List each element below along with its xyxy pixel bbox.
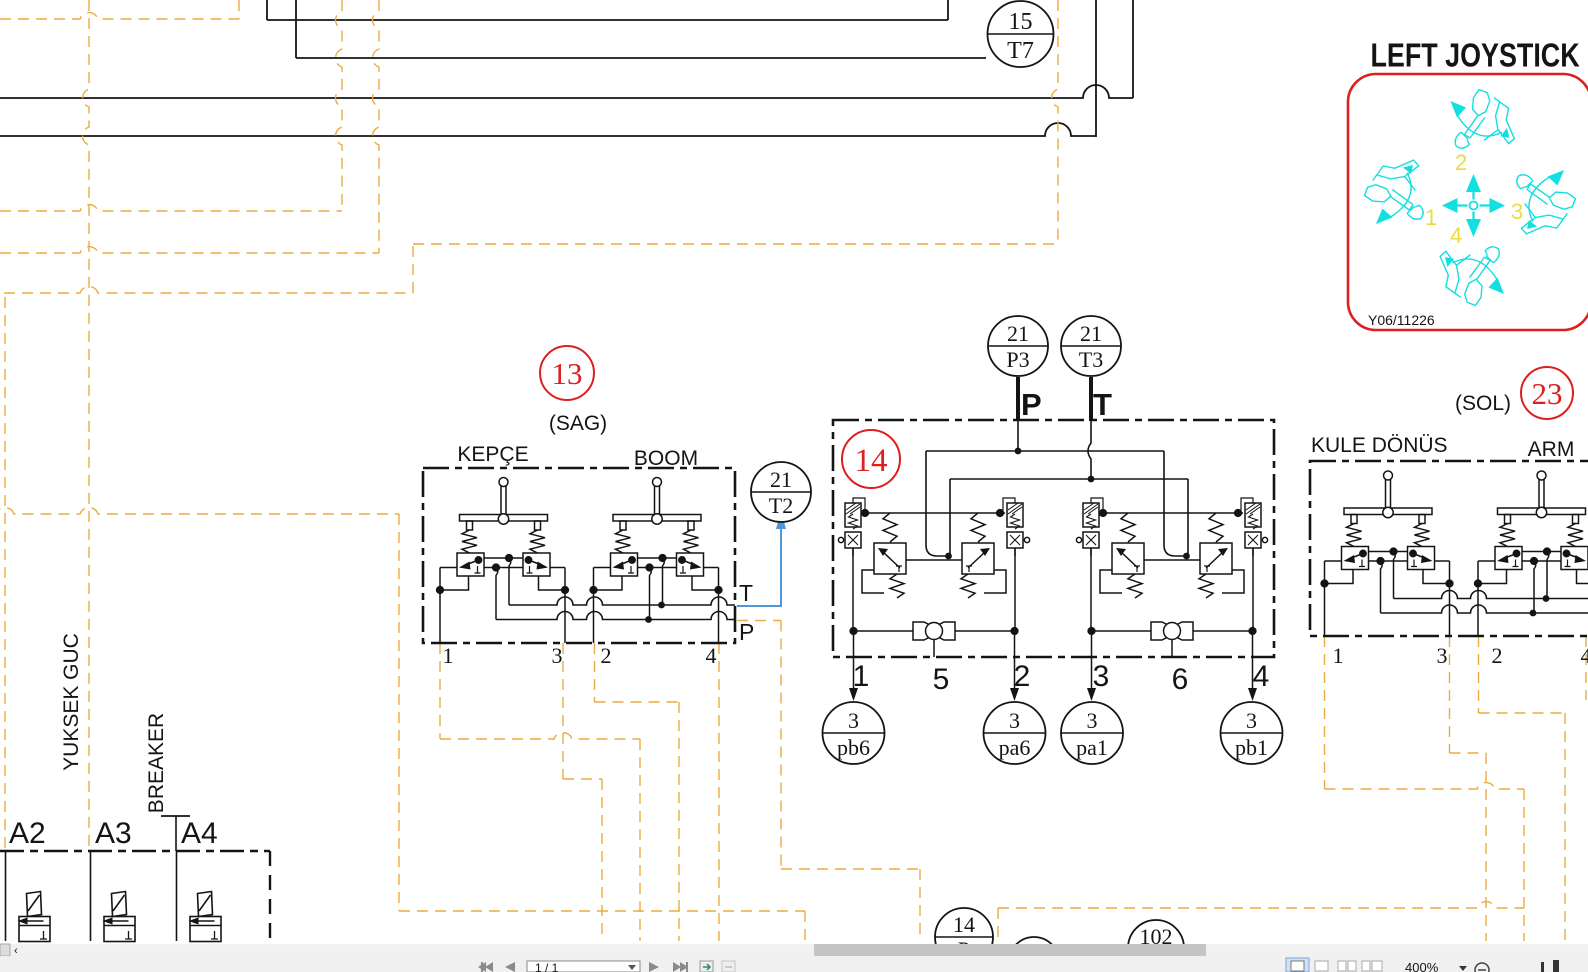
svg-text:T3: T3 — [1079, 347, 1103, 372]
wire: orange pilot line vertical x=379 to horizontal y=253 — [0, 0, 379, 253]
wire: T drop left group — [945, 479, 952, 559]
svg-text:BOOM: BOOM — [634, 447, 698, 470]
LEFT JOYSTICK red border — [1348, 74, 1588, 330]
valve block 13 border — [423, 468, 735, 643]
wire: orange line from port 4 of block 13 — [718, 643, 720, 941]
UI import icon 1 — [700, 961, 713, 972]
svg-text:1: 1 — [1425, 205, 1437, 230]
svg-text:13: 13 — [552, 356, 583, 391]
svg-text:3: 3 — [552, 643, 563, 668]
LEFT JOYSTICK panel title — [1371, 38, 1580, 74]
UI scrollbar track — [0, 944, 1588, 956]
svg-text:A3: A3 — [95, 817, 132, 850]
joystick icon right — [1517, 170, 1576, 234]
joystick icon left — [1364, 160, 1423, 224]
wire: orange line from port 4 of block 23 — [1585, 636, 1587, 700]
valve block 14 border — [833, 420, 1274, 657]
UI page nav last button — [673, 962, 688, 972]
wire: dash-dot bus to A valves — [0, 851, 270, 941]
joystick center cross arrows — [1442, 174, 1505, 237]
wire: orange pilot long horizontal y=244 — [413, 243, 1058, 245]
svg-text:T7: T7 — [1007, 38, 1034, 64]
node: P bus of block 13 — [496, 612, 735, 623]
node 3/pa1 — [1061, 702, 1123, 764]
wire: blue tank line to node 21/T2 — [737, 511, 786, 606]
svg-text:KEPÇE: KEPÇE — [457, 443, 528, 466]
wire: orange bottom bus y=911 — [399, 911, 805, 941]
svg-text:(SAG): (SAG) — [549, 412, 607, 435]
node 15/T7 — [988, 1, 1054, 67]
node 3/pa6 — [984, 702, 1046, 764]
red tag 23 — [1521, 367, 1573, 419]
svg-text:T: T — [1093, 387, 1112, 422]
node bottom partial circle — [1009, 937, 1059, 972]
svg-text:T: T — [739, 580, 753, 606]
svg-text:3: 3 — [1009, 708, 1020, 733]
svg-text:pb1: pb1 — [1235, 735, 1268, 760]
svg-text:YUKSEK GUC: YUKSEK GUC — [60, 633, 83, 771]
wire: orange pilot line horizontal y=293 — [4, 244, 413, 293]
svg-text:Y06/11226: Y06/11226 — [1368, 312, 1435, 328]
wire: orange line from port 2 of block 13 — [595, 643, 680, 941]
svg-text:2: 2 — [601, 643, 612, 668]
svg-text:ARM: ARM — [1528, 438, 1575, 461]
svg-text:23: 23 — [1532, 376, 1563, 411]
svg-text:4: 4 — [1450, 223, 1462, 248]
svg-text:400%: 400% — [1405, 960, 1439, 972]
valve block 23 border — [1310, 461, 1588, 636]
solenoid valve A4 — [177, 851, 222, 942]
svg-text:P: P — [1021, 387, 1042, 422]
node: T bus of block 23 — [1394, 591, 1588, 602]
svg-text:5: 5 — [933, 663, 950, 696]
UI view mode buttons — [1286, 958, 1382, 972]
wire: orange pilot vertical x=399 down to bottom bus — [398, 514, 400, 911]
node 102 — [1128, 920, 1184, 972]
wire: black bus line y=135 with jump over pilot line — [0, 0, 1096, 137]
svg-text:14: 14 — [855, 443, 888, 479]
wire: orange line from port 2 of block 23 — [1479, 636, 1566, 941]
svg-text:3: 3 — [1246, 708, 1257, 733]
svg-text:3: 3 — [1511, 199, 1523, 224]
wire: orange pilot line from port P of block 13 — [737, 621, 920, 942]
svg-text:pb6: pb6 — [837, 735, 870, 760]
svg-text:1 / 1: 1 / 1 — [535, 961, 559, 972]
pilot valve unit KULE DONUS — [1321, 471, 1453, 637]
svg-text:3: 3 — [1087, 708, 1098, 733]
breaker T-bar — [161, 816, 190, 851]
wire: black bus line y=20 — [267, 0, 948, 20]
wire: P distribution rail — [926, 420, 1164, 454]
svg-text:(SOL): (SOL) — [1455, 392, 1511, 415]
wire: orange pilot line vertical x=5 — [4, 297, 6, 848]
wire: thick P supply stub — [1016, 377, 1020, 421]
node 21/T2 — [751, 462, 811, 522]
solenoid valve A3 — [91, 851, 136, 942]
wire: black bus line y=98 with jump over vertical — [0, 0, 1133, 98]
wire: orange bottom bus right y=908 — [998, 902, 1524, 941]
pilot valve unit BOOM — [590, 478, 722, 644]
joystick direction numbers — [1425, 150, 1523, 248]
pilot valve unit ARM — [1475, 471, 1588, 637]
svg-text:T2: T2 — [769, 493, 793, 518]
pilot valve unit KEPCE — [437, 478, 569, 644]
joystick icon down — [1440, 247, 1504, 306]
svg-text:2: 2 — [1492, 643, 1503, 668]
svg-text:3: 3 — [1093, 660, 1110, 693]
svg-text:3: 3 — [1437, 643, 1448, 668]
svg-text:3: 3 — [848, 708, 859, 733]
svg-text:1: 1 — [443, 643, 454, 668]
svg-text:15: 15 — [1009, 9, 1033, 35]
svg-text:P: P — [739, 619, 754, 645]
svg-text:21: 21 — [770, 467, 792, 492]
wire: thick T return stub — [1089, 377, 1093, 421]
red tag 13 — [540, 346, 594, 400]
wire: black bus line y=58 — [296, 0, 986, 58]
svg-text:LEFT JOYSTICK: LEFT JOYSTICK — [1371, 38, 1580, 74]
node: P bus of block 23 — [1381, 605, 1588, 616]
wire: orange line from port 3 of block 23 — [1450, 636, 1487, 941]
wire: orange pilot line horizontal y=19 — [0, 0, 239, 19]
node: T bus of block 13 — [509, 597, 735, 608]
wire: T distribution rail — [950, 420, 1188, 482]
svg-text:14: 14 — [953, 912, 975, 937]
svg-text:‹: ‹ — [14, 945, 18, 957]
solenoid valve A2 — [6, 851, 51, 942]
wire: orange pilot line vertical x=342 to horizontal y=211 — [0, 0, 342, 211]
red tag 14 — [842, 430, 900, 488]
node 3/pb1 — [1221, 702, 1283, 764]
svg-text:A4: A4 — [181, 817, 218, 850]
wire: P drop right group — [1164, 451, 1186, 556]
UI zoom controls — [1459, 960, 1559, 972]
node 21/T3 — [1061, 316, 1121, 376]
wire: orange pilot line vertical x=89 — [83, 0, 89, 847]
svg-text:BREAKER: BREAKER — [145, 713, 168, 813]
wire: orange line from port 3 of block 13 — [563, 643, 602, 941]
UI page nav prev button — [505, 962, 515, 972]
UI page nav first button — [478, 962, 493, 972]
svg-text:A2: A2 — [9, 817, 46, 850]
UI scrollbar left button — [0, 944, 18, 957]
svg-text:KULE DÖNÜS: KULE DÖNÜS — [1311, 434, 1448, 457]
svg-text:1: 1 — [1333, 643, 1344, 668]
wire: orange line from port 1 of block 23 — [1325, 636, 1525, 941]
svg-text:6: 6 — [1172, 663, 1189, 696]
UI scrollbar thumb — [814, 944, 1206, 956]
wire: orange line from port 1 of block 13 — [440, 643, 640, 941]
joystick icon up — [1450, 89, 1514, 148]
solenoid valve group left (ports 1,5,2) — [838, 498, 1029, 701]
svg-text:pa6: pa6 — [999, 735, 1031, 760]
svg-text:1: 1 — [853, 660, 870, 693]
UI toolbar background — [0, 956, 1588, 972]
wire: T drop right group — [1183, 479, 1190, 559]
node 14/P bottom — [935, 908, 993, 966]
solenoid valve group right (ports 3,6,4) — [1076, 498, 1267, 701]
svg-text:pa1: pa1 — [1076, 735, 1108, 760]
svg-text:P3: P3 — [1006, 347, 1029, 372]
svg-text:2: 2 — [1014, 660, 1031, 693]
svg-text:21: 21 — [1007, 321, 1029, 346]
svg-text:2: 2 — [1455, 150, 1467, 175]
svg-text:4: 4 — [1253, 660, 1270, 693]
svg-text:4: 4 — [1581, 643, 1588, 668]
UI page nav next button — [649, 962, 659, 972]
svg-text:21: 21 — [1080, 321, 1102, 346]
UI page number box — [527, 961, 640, 972]
wire: P drop left group — [926, 451, 948, 556]
wire: orange pilot horizontal y=514 — [0, 508, 399, 514]
node 3/pb6 — [823, 702, 885, 764]
svg-text:4: 4 — [706, 643, 717, 668]
UI import icon 2 — [722, 961, 735, 972]
node 21/P3 — [988, 316, 1048, 376]
wire: orange pilot vertical x=1058 — [1052, 0, 1058, 244]
